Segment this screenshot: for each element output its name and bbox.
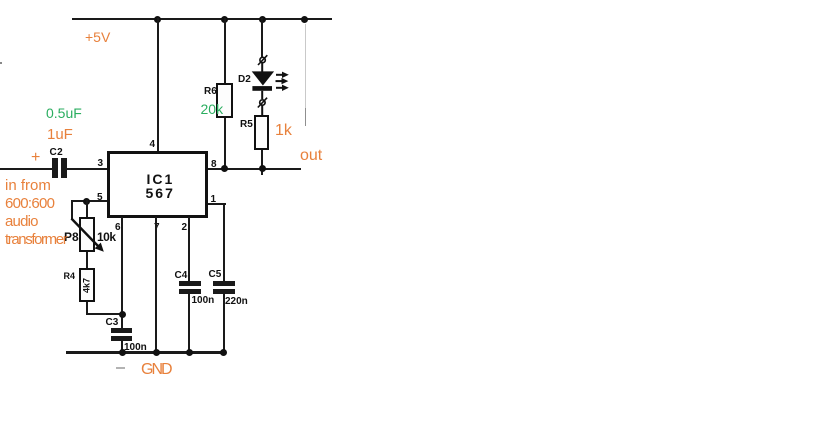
wire: input from left edge to C2 bbox=[0, 168, 52, 170]
node: junction dot rail / pin4 bbox=[154, 16, 161, 23]
pin label 8 bbox=[211, 160, 217, 170]
label C4 bbox=[175, 271, 188, 281]
wire: C2 to pin 3 bbox=[66, 168, 107, 170]
LED cathode bar bbox=[252, 86, 272, 91]
label 567 bbox=[146, 186, 175, 200]
label C5 bbox=[209, 270, 222, 280]
label 100n (C3) bbox=[124, 343, 147, 353]
label IC1 bbox=[147, 172, 175, 186]
wire: C5 to ground bbox=[223, 293, 225, 353]
wire: R6 bottom to pin8 net bbox=[224, 118, 226, 169]
label + (orange) bbox=[31, 148, 40, 167]
node: junction dot gnd / C4 bbox=[186, 349, 193, 356]
light arrow 2 bbox=[276, 78, 289, 84]
potentiometer P8 body bbox=[79, 217, 95, 253]
pin label 4 bbox=[150, 140, 156, 150]
label 1k (orange) bbox=[275, 121, 292, 140]
label C2 bbox=[50, 148, 64, 158]
light arrow 3 bbox=[276, 85, 289, 91]
faint dash near GND bbox=[116, 367, 125, 370]
label 20k (green) bbox=[201, 101, 224, 118]
node: junction dot gnd / C3 bbox=[119, 349, 126, 356]
node: junction dot pin8 / R6 bbox=[221, 165, 228, 172]
wire circle to triangle bbox=[261, 63, 263, 72]
+5V label bbox=[85, 29, 110, 46]
wire: +5V top rail bbox=[72, 18, 332, 20]
wire circle to R5 bbox=[261, 106, 263, 117]
LED D2 with terminals and light arrows bbox=[240, 50, 296, 116]
node: junction dot pin8 / R5 bbox=[259, 165, 266, 172]
capacitor C3 bottom plate bbox=[111, 336, 133, 341]
capacitor C4 bottom plate bbox=[179, 289, 201, 294]
node: junction dot rail / D2 bbox=[259, 16, 266, 23]
wire: pin 1 vertical down to C5 bbox=[223, 203, 225, 282]
wire: R4 bottom L to pin6 column bbox=[86, 302, 88, 315]
capacitor C3 top plate bbox=[111, 328, 133, 333]
terminal circle below LED bbox=[260, 100, 265, 105]
label 4k7 (rotated inside R4) bbox=[83, 275, 92, 297]
pin label 7 bbox=[154, 223, 160, 233]
label out (orange) bbox=[300, 146, 322, 165]
label 10k bbox=[97, 231, 116, 243]
label in from 600:600 audio transformer (orange) bbox=[5, 177, 51, 195]
label R4 bbox=[64, 272, 76, 281]
wire: R6 column from rail to resistor bbox=[224, 18, 226, 83]
pin label 3 bbox=[98, 159, 104, 169]
light arrow 1 bbox=[276, 72, 289, 78]
wire: pot bottom to R4 bbox=[86, 252, 88, 268]
wire: pin 1 horizontal from IC bbox=[208, 203, 226, 205]
capacitor C5 bottom plate bbox=[213, 289, 235, 294]
terminal circle above LED bbox=[260, 57, 265, 62]
wire: pin 2 vertical to C4 bbox=[188, 217, 190, 282]
pin label 6 bbox=[115, 223, 121, 233]
faint erased wire remnant right bbox=[305, 24, 306, 108]
capacitor C5 top plate bbox=[213, 281, 235, 286]
label R6 bbox=[204, 87, 217, 97]
IC U1: IC1 567 tone decoder box bbox=[107, 151, 208, 218]
wire: C4 to ground bbox=[188, 293, 190, 353]
label R5 bbox=[240, 120, 253, 130]
label 220n (C5) bbox=[225, 297, 248, 307]
wire: pin 8 output line bbox=[208, 168, 302, 170]
capacitor C2 left plate bbox=[52, 158, 58, 179]
label 1uF (orange) bbox=[47, 126, 73, 144]
label P8 bbox=[64, 231, 79, 243]
node: junction dot gnd / pin7 bbox=[153, 349, 160, 356]
label 0.5uF (green) bbox=[46, 105, 82, 122]
capacitor C4 top plate bbox=[179, 281, 201, 286]
wire: pin 5 horizontal bbox=[71, 200, 107, 202]
wire: ground rail bbox=[66, 351, 226, 354]
wire: C3 to ground bbox=[121, 340, 123, 353]
wire: pin 4 vertical from rail to IC bbox=[157, 18, 159, 151]
wire: pin 6 vertical to C3 bbox=[121, 217, 123, 329]
label GND (orange) bbox=[141, 360, 171, 379]
faint speck left edge bbox=[0, 62, 2, 64]
wire: pot top vertical bbox=[86, 200, 88, 217]
node: junction dot rail right bbox=[301, 16, 308, 23]
resistor R4 bbox=[79, 268, 95, 302]
pin label 2 bbox=[182, 223, 188, 233]
LED triangle (anode) bbox=[252, 71, 274, 85]
wire: pin 7 vertical to ground bbox=[155, 217, 157, 353]
potentiometer P8 wiper arrow bbox=[65, 212, 113, 258]
wire bar to lower circle bbox=[261, 91, 263, 99]
resistor R6 bbox=[216, 83, 233, 118]
label D2 bbox=[238, 75, 251, 85]
node: junction dot rail / R6 bbox=[221, 16, 228, 23]
node: junction dot gnd / C5 bbox=[220, 349, 227, 356]
pin label 5 bbox=[97, 193, 103, 203]
wire: LED column from rail down bbox=[261, 18, 263, 57]
capacitor C2 right plate bbox=[61, 158, 67, 179]
pin label 1 bbox=[211, 195, 217, 205]
resistor R5 bbox=[254, 115, 269, 150]
wire: pin5 bend down to wiper bbox=[71, 200, 73, 219]
node: junction dot pin6 / R4 bbox=[119, 311, 126, 318]
wire: R5 bottom to pin8 net with stub bbox=[261, 150, 263, 175]
node: junction dot pin5 / pot top bbox=[83, 198, 90, 205]
label 100n (C4) bbox=[192, 296, 215, 306]
label C3 bbox=[106, 318, 119, 328]
